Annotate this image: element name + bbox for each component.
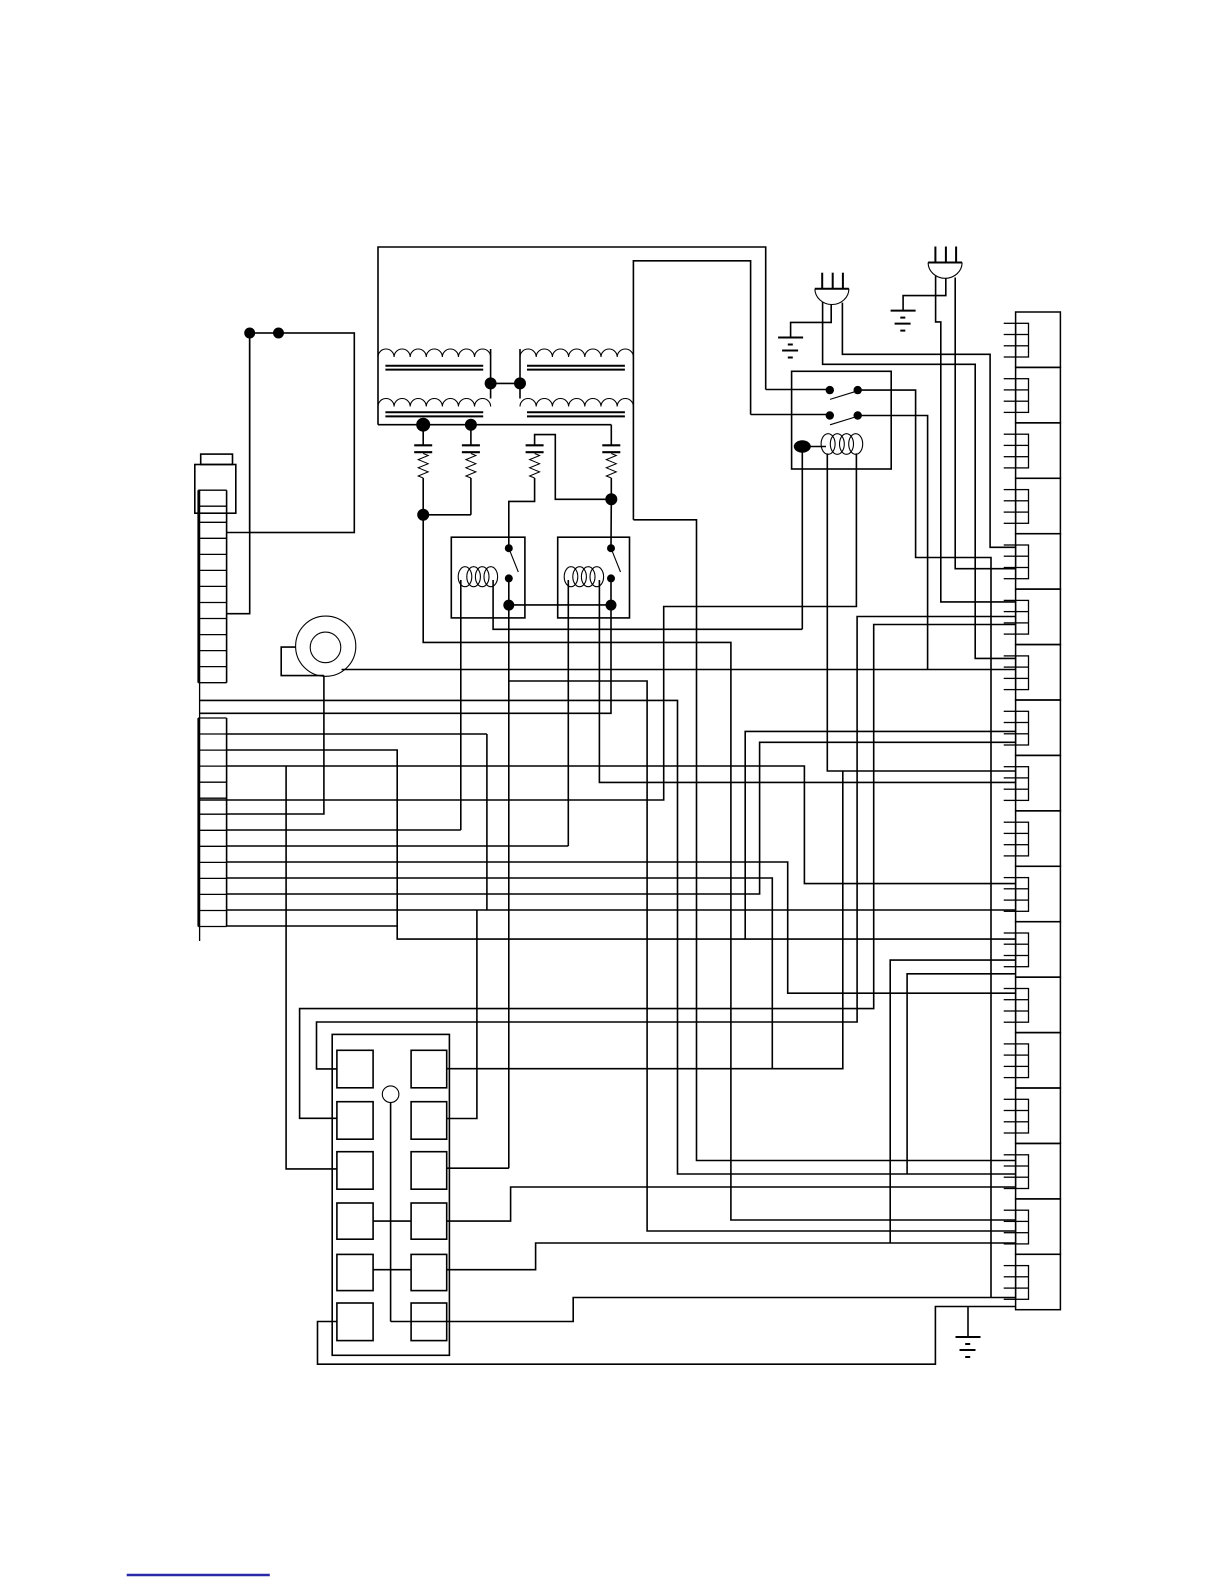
wire K1 common down: [508, 578, 510, 1168]
wire P2 center to ground: [903, 278, 946, 311]
capacitor C1: [422, 425, 424, 446]
wire R1 bottom: [422, 478, 424, 515]
wire CN3 r6 left loop: [318, 1307, 1016, 1365]
transformer T2: [520, 349, 633, 357]
wire CN2 p3: [227, 766, 1016, 884]
connector CN4 column: [1016, 312, 1061, 367]
node branch4 junction: [605, 493, 617, 505]
wire K3 coil link: [802, 446, 826, 448]
wire CN2 p11: [227, 742, 1016, 894]
capacitor C3: [526, 444, 544, 446]
wire K2 coil right down: [599, 580, 1015, 782]
wire row2 out: [858, 416, 928, 670]
wire R2 bottom: [470, 478, 472, 515]
wire mesh drop A: [907, 974, 1016, 1174]
wire door block to CN1: [227, 333, 250, 614]
wire inner-box drop to mesh: [633, 520, 1015, 1161]
relay K2 coil: [564, 567, 578, 587]
wire K3 coil term down: [801, 447, 803, 630]
connector CN1 upper pins: [198, 489, 226, 491]
relay K1 box: [451, 537, 525, 618]
wire K3 coil right down: [199, 453, 856, 800]
wire mesh drop C: [745, 731, 1015, 939]
wire C3 top loop: [535, 435, 612, 500]
plug P2: [928, 262, 962, 264]
wire row1 out: [858, 390, 991, 1297]
wire K3 coil left down: [827, 453, 1015, 771]
connector CN3 outline: [332, 1034, 449, 1355]
wire CN3 r3 right: [447, 1167, 509, 1169]
ground G3: [956, 1336, 981, 1338]
footer link line: [127, 1574, 270, 1577]
wire K2 common down: [199, 578, 611, 713]
relay K1 coil: [458, 567, 472, 587]
wire inner HV box: [633, 261, 750, 520]
wire CN2 p12: [227, 909, 1016, 911]
wire P2 left: [936, 276, 1016, 602]
wire CN2 p1: [227, 733, 487, 735]
capacitor C4: [610, 425, 612, 446]
relay K1 switch: [505, 544, 513, 552]
connector CN1 cap: [201, 454, 233, 464]
wire outer HV box top/left: [378, 247, 766, 425]
wire CN3 r5 right: [447, 1243, 1016, 1270]
wire CN2 p10: [227, 878, 773, 1069]
wire K1 coil left down: [460, 580, 462, 830]
relay K2 box: [558, 537, 630, 618]
node K3 coil terminal: [794, 440, 811, 452]
relay K3 contact row1: [826, 386, 834, 394]
wire row1 in: [766, 389, 830, 391]
wire P1 right: [842, 303, 1015, 548]
wire P2 right: [955, 278, 1015, 569]
resistor R3: [530, 454, 540, 479]
transformer T1: [378, 349, 491, 357]
ground G2: [891, 310, 916, 312]
node door sw A: [244, 328, 255, 339]
wire branch4 to relay K2: [610, 499, 612, 548]
wire CN1 left edge: [199, 490, 201, 941]
wire CN1 pin to block bottom: [227, 532, 250, 534]
wire CN3 r1 right: [447, 771, 843, 1069]
wire K1 aux to mesh: [509, 681, 1016, 1231]
wire K1 coil right down: [493, 580, 802, 629]
connector CN1 body: [195, 465, 236, 514]
wire CN3 r2 left: [300, 625, 1016, 1119]
wire fan to connector pin: [342, 669, 1016, 671]
wire transformer common bottom: [378, 424, 611, 426]
connector CN2 lower pins: [198, 717, 226, 719]
wire branch1 down: [423, 515, 1015, 1220]
wire K2 coil left down: [567, 580, 569, 846]
node transformer T2 tap: [514, 377, 526, 389]
resistor R1: [418, 454, 428, 479]
connector CN3 index circle: [382, 1086, 399, 1103]
wire branch1 to branch2: [423, 514, 471, 516]
wire CN3 r3 left: [286, 766, 337, 1169]
node transformer T1 tap: [485, 377, 497, 389]
wire CN3 r2 right: [447, 910, 477, 1119]
node branch1 junction: [417, 509, 429, 521]
wire CN2 p2: [227, 750, 1016, 939]
relay K3 box: [792, 371, 892, 469]
connector CN3 left pins: [337, 1050, 373, 1088]
wire gap pin1: [199, 700, 1016, 1174]
relay K2 switch: [607, 544, 615, 552]
plug P1: [815, 288, 849, 290]
ground G1: [778, 337, 803, 339]
resistor R4: [606, 454, 616, 479]
wire P1 center to ground: [791, 305, 832, 338]
wire ground stub: [967, 1307, 969, 1338]
node branch1 top: [416, 418, 430, 432]
resistor R2: [466, 454, 476, 479]
wire fan down to CN2: [227, 676, 324, 814]
wire CN2 p9: [227, 862, 1016, 993]
node branch2 top: [465, 419, 477, 431]
wire CN3 row5 link: [373, 1269, 411, 1271]
wire CN2 p8: [227, 845, 569, 847]
wire CN2 p13: [227, 925, 398, 927]
wire transformer center link: [491, 382, 520, 384]
wire R4 bottom: [610, 478, 612, 499]
fan motor: [296, 616, 356, 676]
relay K3 coil: [821, 434, 835, 455]
connector CN3 right pins: [411, 1050, 447, 1088]
node door sw B: [273, 328, 284, 339]
wire CN3 r4 right: [447, 1187, 1016, 1221]
wire P1 left: [823, 302, 1016, 659]
wire CN3 row4 link: [373, 1220, 411, 1222]
wire CN3 r6 right: [391, 1298, 1016, 1322]
capacitor C2: [470, 425, 472, 446]
wire mesh drop B: [890, 960, 1015, 1243]
wire R3 to relay K1: [509, 478, 535, 548]
relay K3 contact row2: [826, 411, 834, 419]
wire CN2 p7: [227, 829, 461, 831]
wire p1 drop: [486, 734, 488, 910]
wire CN3 r1 left: [317, 617, 1016, 1069]
component door switch block: [250, 333, 355, 533]
wire CN3 key line: [390, 1103, 392, 1322]
wire row2 in: [751, 414, 830, 416]
wire K1-K2 bottom link: [509, 604, 611, 606]
